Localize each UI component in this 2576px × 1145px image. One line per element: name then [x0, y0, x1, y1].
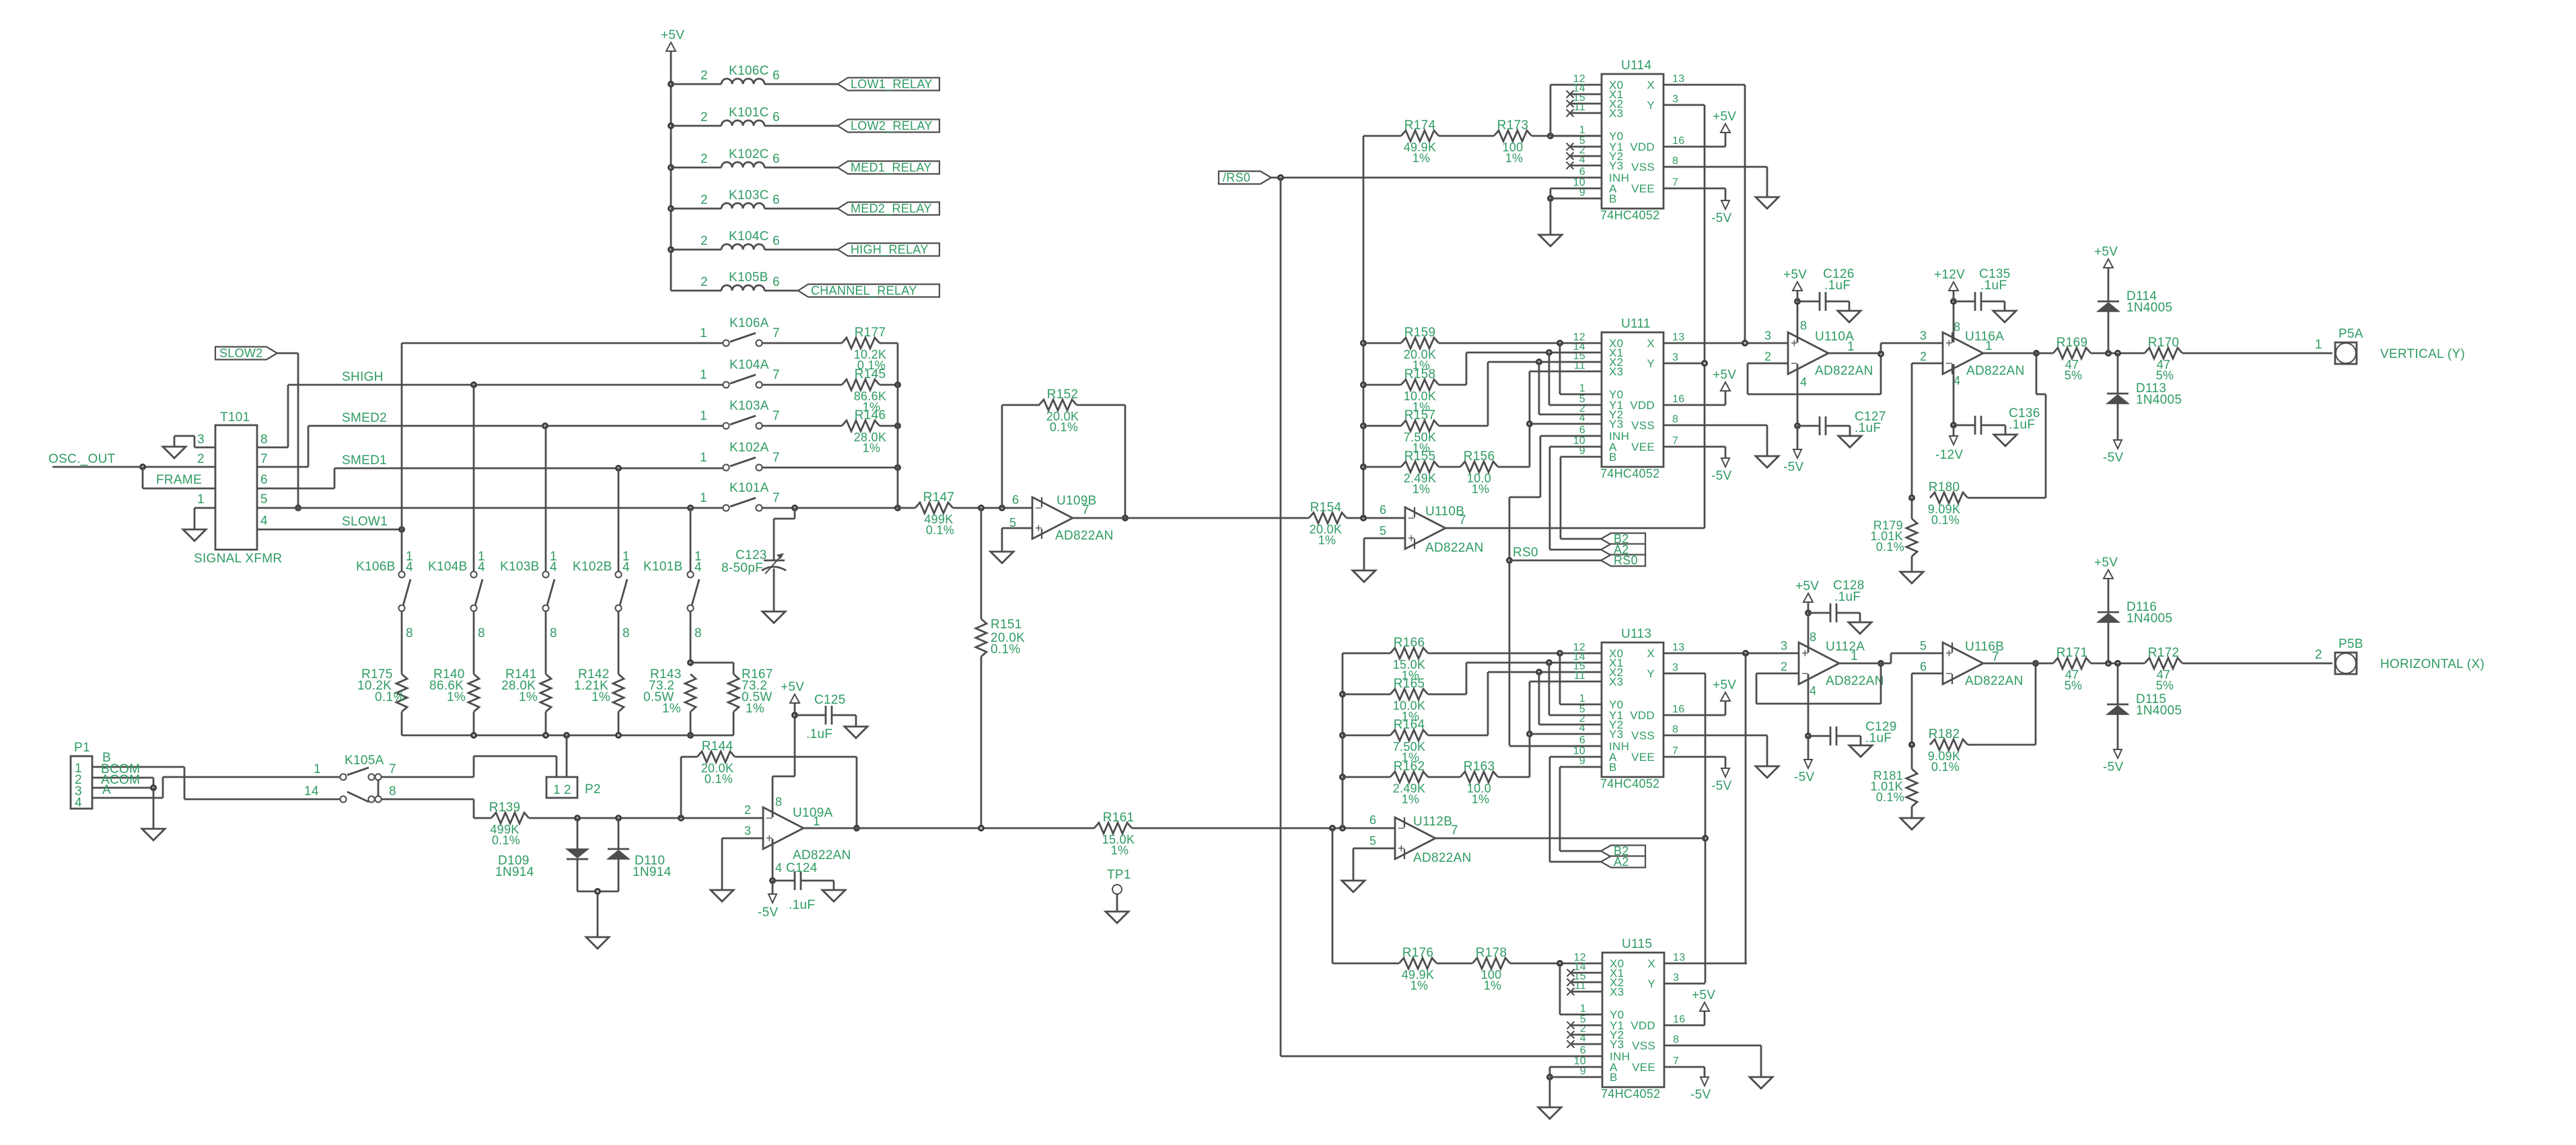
power -5V D113 — [2103, 440, 2123, 465]
pin 16 U115 VDD — [1673, 1014, 1685, 1025]
pin 6 K103C — [773, 193, 780, 207]
svg-text:U115: U115 — [1622, 937, 1652, 951]
pin 6 K101C — [773, 110, 780, 124]
net flag SLOW2 — [215, 346, 277, 360]
pin 9 U115 B — [1580, 1066, 1586, 1077]
pin 7 U115 VEE — [1673, 1056, 1679, 1067]
svg-text:1: 1 — [1579, 383, 1585, 394]
wire R162 left — [1343, 776, 1390, 778]
wire U116A output — [1983, 353, 2053, 355]
wire C127 left — [1797, 425, 1820, 427]
label K106B — [356, 560, 396, 574]
wire R164 right — [1428, 672, 1602, 735]
value 74HC4052 U114 — [1600, 209, 1659, 222]
junction SLOW2 pin5 — [295, 505, 301, 511]
svg-text:Y: Y — [1647, 977, 1655, 990]
pin 2 U111 Y2 — [1579, 403, 1585, 414]
resistor R151 — [976, 618, 1025, 657]
svg-text:VERTICAL (Y): VERTICAL (Y) — [2380, 347, 2465, 361]
switch K105A upper blade — [347, 768, 369, 775]
svg-text:1: 1 — [197, 492, 205, 507]
pin 7 U113 VEE — [1672, 745, 1678, 757]
svg-text:VEE: VEE — [1632, 1061, 1655, 1074]
junction SHIGH K104B — [470, 381, 477, 388]
svg-text:R162: R162 — [1394, 760, 1425, 774]
wire K103B to resistor — [545, 611, 547, 674]
wire D109 top — [577, 818, 579, 849]
svg-text:AD822AN: AD822AN — [1815, 364, 1873, 378]
wire pin4 to -12V — [1953, 425, 1955, 436]
svg-text:0.1%: 0.1% — [1876, 540, 1904, 554]
junction C128 — [1805, 610, 1812, 616]
junction bus P2 — [563, 732, 570, 739]
svg-text:Y3: Y3 — [1609, 728, 1623, 741]
junction R151 top — [978, 505, 985, 511]
pin 1 K102A — [700, 451, 707, 465]
svg-text:8: 8 — [622, 626, 630, 640]
junction C136 — [1950, 422, 1957, 429]
pin 1 K101A — [700, 491, 707, 505]
wire R172 to P5B — [2182, 663, 2332, 665]
svg-text:+: + — [1945, 336, 1953, 350]
wire P1 pin3 ACOM — [92, 787, 153, 789]
junction R143 R167 bottom — [687, 732, 694, 739]
wire C127 right — [1826, 426, 1850, 436]
svg-text:X3: X3 — [1609, 107, 1623, 120]
junction R176 branch — [1329, 825, 1336, 832]
pin 5 U115 Y1 — [1580, 1014, 1586, 1025]
pin 8 T101 — [260, 433, 268, 447]
svg-text:1: 1 — [1985, 339, 1993, 353]
svg-text:AD822AN: AD822AN — [1966, 364, 2025, 378]
svg-text:5%: 5% — [2156, 679, 2174, 692]
svg-text:74HC4052: 74HC4052 — [1600, 209, 1659, 222]
switch K104A contact right — [756, 381, 762, 387]
svg-text:+5V: +5V — [1713, 110, 1736, 124]
svg-text:K106C: K106C — [729, 64, 769, 78]
wire K105A pin7 to P2 pin1 — [381, 756, 557, 777]
pin 3 U111 Y — [1672, 352, 1678, 363]
svg-text:K105A: K105A — [345, 753, 384, 768]
svg-text:2: 2 — [701, 275, 708, 289]
svg-text:SLOW2: SLOW2 — [219, 346, 263, 360]
resistor R167 — [728, 667, 773, 716]
svg-text:A: A — [102, 783, 111, 797]
junction bus K104B — [470, 732, 477, 739]
pin 4 T101 — [260, 514, 268, 528]
pin 8 K104B — [478, 626, 485, 640]
resistor R146 — [842, 408, 886, 455]
wire C135 left — [1954, 301, 1975, 303]
svg-text:1N914: 1N914 — [633, 865, 672, 879]
svg-text:R139: R139 — [489, 801, 521, 815]
wire R151 bottom — [980, 657, 982, 828]
svg-text:C123: C123 — [736, 548, 767, 562]
junction C127 — [1794, 422, 1801, 429]
svg-text:-12V: -12V — [1935, 448, 1963, 462]
wire U115 VDD — [1664, 1011, 1705, 1025]
pin 2 K101C — [701, 110, 708, 124]
svg-text:2: 2 — [564, 783, 571, 797]
junction U114 A B — [1547, 195, 1554, 202]
junction D113 — [2114, 350, 2121, 357]
wire K105B pin2 — [671, 290, 721, 292]
pin 9 U111 B — [1579, 445, 1585, 457]
power +5V U114 — [1713, 110, 1736, 133]
pin 1 K106A — [700, 326, 707, 340]
junction Y3 branch U113 — [1526, 731, 1533, 737]
svg-text:13: 13 — [1672, 332, 1684, 343]
pin 7 K105A — [389, 762, 396, 776]
svg-text:SHIGH: SHIGH — [342, 370, 384, 384]
wire U114 X2 nc stub — [1570, 103, 1602, 105]
junction bus K102B — [615, 732, 622, 739]
svg-text:A2: A2 — [1614, 855, 1629, 869]
svg-text:K102C: K102C — [729, 147, 769, 161]
op-amp U112B — [1369, 813, 1472, 865]
wire +12V stem — [1953, 291, 1955, 301]
svg-text:1%: 1% — [592, 690, 610, 704]
svg-text:R172: R172 — [2148, 646, 2180, 660]
switch K103A contact right — [756, 422, 762, 429]
svg-text:R178: R178 — [1476, 946, 1507, 960]
power -5V U114 — [1711, 200, 1731, 225]
wire R156 right — [1498, 371, 1602, 467]
svg-text:2: 2 — [2315, 648, 2322, 662]
ground R179 — [1900, 572, 1923, 583]
switch K105A lower blade — [347, 792, 369, 802]
svg-text:B: B — [1610, 1071, 1618, 1084]
svg-text:8-50pF: 8-50pF — [721, 561, 763, 575]
svg-text:2: 2 — [701, 152, 708, 166]
svg-text:VSS: VSS — [1631, 729, 1655, 742]
label P2 — [585, 782, 601, 797]
wire to C123 — [774, 508, 795, 560]
pin 10 U111 A — [1573, 435, 1585, 447]
wire D115 lead — [2117, 663, 2119, 704]
svg-text:T101: T101 — [220, 410, 250, 424]
wire U111 INH — [1509, 436, 1602, 745]
svg-text:6: 6 — [773, 110, 780, 124]
svg-text:6: 6 — [1579, 735, 1585, 746]
pin 6 T101 — [260, 473, 268, 487]
wire +5V arrow stem U110A — [1797, 291, 1799, 301]
svg-text:−: − — [1945, 357, 1953, 370]
pin 3 U113 Y — [1672, 662, 1678, 673]
ground C127 — [1838, 436, 1861, 447]
label K106C — [729, 64, 769, 78]
power +5V relay rail — [661, 28, 684, 51]
wire U110A pin4 — [1797, 364, 1799, 426]
wire R157 right — [1439, 362, 1602, 426]
power -5V U115 — [1690, 1077, 1711, 1102]
junction X0 Y0 tie U111 — [1557, 340, 1563, 346]
svg-text:+5V: +5V — [661, 28, 684, 42]
switch K102B blade — [620, 579, 627, 605]
pin 1 P5A — [2315, 338, 2322, 352]
svg-text:X: X — [1647, 79, 1655, 91]
no-connect U115 Y2 — [1567, 1031, 1575, 1039]
junction bus R146 — [894, 422, 901, 429]
pin 2 K106C — [701, 69, 708, 83]
ground U109A plus — [711, 890, 734, 901]
wire U111 VSS — [1663, 425, 1767, 456]
relay coil K105B — [721, 285, 764, 291]
svg-text:1: 1 — [700, 326, 707, 340]
wire U115 X3 nc stub — [1571, 991, 1602, 993]
ground U115 VSS — [1750, 1077, 1773, 1088]
svg-text:R171: R171 — [2056, 646, 2088, 660]
pin 6 K106C — [773, 69, 780, 83]
junction R182 R181 — [1908, 741, 1915, 748]
wire U114 X1 nc stub — [1570, 94, 1602, 96]
svg-text:VDD: VDD — [1630, 709, 1655, 722]
wire K104C pin6 — [764, 249, 838, 251]
svg-text:0.1%: 0.1% — [1876, 790, 1904, 804]
svg-text:7: 7 — [1672, 745, 1678, 757]
wire SHIGH row — [288, 384, 723, 386]
connector P1 — [71, 756, 92, 810]
wire K103B from net — [545, 426, 547, 571]
svg-text:+5V: +5V — [1783, 268, 1807, 282]
switch K104B top contact — [470, 571, 476, 577]
wire U115 B — [1550, 1077, 1602, 1107]
junction lower bus R164 — [1339, 732, 1346, 739]
svg-text:0.1%: 0.1% — [926, 523, 954, 537]
pin 3 T101 — [197, 433, 205, 447]
pin 8 U113 VSS — [1672, 724, 1678, 735]
switch K101A blade — [730, 498, 756, 507]
wire U116A minus leg — [1912, 363, 1943, 498]
label P5A — [2338, 327, 2363, 341]
svg-text:11: 11 — [1574, 670, 1585, 681]
net flag LOW2_RELAY — [838, 119, 939, 133]
wire K104A to R145 — [762, 384, 842, 386]
pin 1 U111 Y0 — [1579, 383, 1585, 394]
power -5V U109A — [758, 894, 778, 920]
wire R143 to bus — [690, 712, 692, 735]
pin 4 K106B — [406, 560, 413, 575]
junction bus R145 — [894, 381, 901, 388]
svg-text:1%: 1% — [1402, 792, 1420, 806]
svg-text:C124: C124 — [786, 861, 818, 875]
wire U111 X to U110A — [1663, 342, 1788, 344]
svg-text:5: 5 — [1920, 639, 1927, 653]
pin 14 K105A — [304, 784, 319, 799]
power -5V U112A — [1794, 760, 1814, 784]
svg-text:C125: C125 — [814, 693, 846, 707]
net SMED1 — [342, 453, 387, 468]
svg-text:MED1_RELAY: MED1_RELAY — [851, 161, 932, 175]
svg-text:4: 4 — [1810, 684, 1816, 698]
wire K102C pin2 — [671, 167, 721, 169]
pin 13 U114 X — [1672, 73, 1684, 85]
wire U116B minus leg — [1912, 673, 1943, 745]
svg-text:-5V: -5V — [1690, 1088, 1711, 1102]
svg-text:3: 3 — [1672, 352, 1678, 363]
wire X chain lower — [1745, 653, 1747, 963]
svg-text:+: + — [1035, 521, 1042, 535]
wire K106C pin6 — [764, 83, 838, 85]
svg-text:R157: R157 — [1404, 408, 1436, 422]
resistor R182 — [1928, 727, 1968, 774]
svg-text:U114: U114 — [1621, 59, 1651, 73]
label K103A — [729, 399, 769, 413]
diode D115 1N4005 — [2107, 692, 2182, 718]
wire K104B from net — [473, 385, 475, 571]
pin 11 U114 X3 — [1574, 102, 1585, 113]
pin 2 U114 Y2 — [1579, 145, 1585, 156]
wire U114 VSS — [1663, 167, 1767, 197]
junction R144 left — [678, 815, 684, 821]
svg-text:0.1%: 0.1% — [1931, 760, 1960, 774]
power +5V U113 — [1713, 678, 1736, 701]
junction R143 R167 top — [687, 659, 694, 666]
pin 7 K102A — [773, 451, 780, 465]
svg-text:FRAME: FRAME — [156, 473, 202, 487]
pin 12 U113 X0 — [1573, 642, 1585, 653]
connector P5B circle — [2336, 653, 2356, 673]
wire U113 A — [1550, 757, 1602, 862]
pin 13 U113 X — [1672, 642, 1684, 653]
switch K105A upper right contact — [368, 774, 374, 780]
pin 15 U111 X2 — [1573, 350, 1585, 362]
svg-text:U112B: U112B — [1413, 815, 1452, 829]
ground C129 — [1849, 745, 1872, 757]
pin 8 K103B — [550, 626, 557, 640]
ground R181 — [1900, 818, 1923, 829]
wire R154 to U110B — [1347, 517, 1405, 519]
pin 13 U111 X — [1672, 332, 1684, 343]
pin 10 U115 A — [1574, 1056, 1586, 1067]
svg-text:+5V: +5V — [2094, 556, 2118, 570]
svg-text:B: B — [1609, 451, 1617, 464]
svg-text:AD822AN: AD822AN — [1055, 529, 1114, 543]
junction C125 — [791, 712, 798, 718]
svg-text:VEE: VEE — [1631, 441, 1655, 453]
svg-text:LOW2_RELAY: LOW2_RELAY — [851, 119, 933, 133]
net flag A2 lower — [1601, 855, 1645, 869]
wire U116A pin4 — [1953, 364, 1955, 425]
wire U114 Y3 nc stub — [1570, 165, 1602, 167]
svg-text:1N4005: 1N4005 — [2126, 612, 2172, 626]
wire R164 left — [1343, 735, 1390, 737]
svg-text:2: 2 — [1764, 350, 1771, 363]
pin 14 U115 X1 — [1574, 961, 1586, 973]
svg-text:R152: R152 — [1047, 387, 1079, 402]
svg-text:Y: Y — [1647, 99, 1655, 112]
wire T101 pin8 jog — [257, 385, 288, 447]
pin 1 U114 Y0 — [1579, 124, 1585, 136]
wire C129 right — [1836, 736, 1861, 745]
svg-text:+5V: +5V — [781, 680, 804, 694]
wire R144 right leg — [735, 757, 857, 828]
power +5V U111 — [1713, 368, 1736, 391]
wire U115 A — [1550, 1067, 1602, 1077]
resistor R139 — [489, 801, 529, 847]
svg-text:R163: R163 — [1464, 760, 1495, 774]
svg-text:4: 4 — [1954, 374, 1960, 387]
svg-text:AD822AN: AD822AN — [1413, 851, 1472, 865]
wire P1 pin2 BCOM — [92, 778, 153, 788]
resistor R155 — [1401, 449, 1439, 496]
junction X0 Y0 tie U113 — [1557, 650, 1563, 657]
svg-text:1N914: 1N914 — [495, 865, 534, 879]
svg-text:7: 7 — [773, 368, 780, 382]
svg-text:+5V: +5V — [2094, 245, 2118, 259]
svg-text:+: + — [1408, 531, 1415, 545]
wire R179 top — [1911, 498, 1913, 519]
svg-text:8: 8 — [550, 626, 557, 640]
wire R144 left leg — [681, 757, 697, 818]
wire C124 right — [801, 881, 834, 890]
svg-text:B: B — [1609, 192, 1617, 205]
pin 8 U114 VSS — [1672, 155, 1678, 167]
junction U115 A B — [1546, 1074, 1553, 1080]
wire R167 bottom leg — [733, 712, 735, 735]
no-connect U114 Y3 — [1567, 162, 1574, 170]
junction U112B output Y chain — [1702, 835, 1709, 842]
junction U110A output — [1877, 350, 1884, 357]
svg-text:U109B: U109B — [1057, 494, 1097, 508]
no-connect U115 X2 — [1567, 979, 1575, 986]
svg-text:+12V: +12V — [1934, 268, 1965, 282]
svg-text:74HC4052: 74HC4052 — [1601, 1087, 1660, 1101]
svg-text:R155: R155 — [1404, 449, 1436, 464]
svg-text:R164: R164 — [1394, 718, 1425, 732]
wire D116 to +5V — [2108, 579, 2110, 612]
wire FRAME — [143, 467, 215, 488]
pin 7 U114 VEE — [1672, 177, 1678, 188]
resistor R169 — [2053, 336, 2091, 382]
op-amp U116A — [1920, 320, 2025, 387]
wire R141 to bus — [545, 712, 547, 735]
switch K102A contact right — [756, 464, 762, 470]
svg-text:VDD: VDD — [1631, 1019, 1655, 1032]
junction +5V rail K102C — [668, 164, 674, 171]
wire U111 Y — [1663, 363, 1705, 365]
pin 4 U114 Y3 — [1579, 154, 1585, 165]
wire R165 right — [1428, 663, 1602, 694]
wire K101B to R143 — [690, 611, 692, 663]
junction X1 Y1 tie U111 — [1546, 349, 1552, 356]
label K104C — [729, 229, 769, 244]
wire U114 Y0 stub — [1550, 135, 1602, 137]
wire D116 lead — [2108, 622, 2110, 663]
power +12V U116A — [1934, 268, 1965, 291]
svg-text:16: 16 — [1672, 135, 1684, 147]
svg-text:-5V: -5V — [2103, 451, 2123, 465]
net flag A2 — [1601, 543, 1645, 556]
label K102B — [573, 560, 612, 574]
wire R167 top leg — [690, 663, 734, 674]
pin 5 U113 Y1 — [1579, 704, 1585, 715]
pin 4 K104B — [478, 560, 485, 575]
svg-text:2: 2 — [701, 110, 708, 124]
pin 16 U111 VDD — [1672, 394, 1684, 405]
wire U112A output — [1839, 653, 1943, 663]
svg-text:8: 8 — [406, 626, 413, 640]
svg-text:1%: 1% — [1484, 979, 1502, 992]
wire U113 X to U112A — [1663, 653, 1799, 655]
svg-text:VSS: VSS — [1631, 161, 1655, 174]
svg-text:8: 8 — [389, 784, 396, 799]
svg-text:4: 4 — [622, 560, 630, 575]
pin 4 K102B — [622, 560, 630, 575]
wire SMED2 row — [308, 425, 723, 427]
wire K106B from net — [401, 529, 403, 571]
wire D114 lead — [2108, 311, 2110, 353]
